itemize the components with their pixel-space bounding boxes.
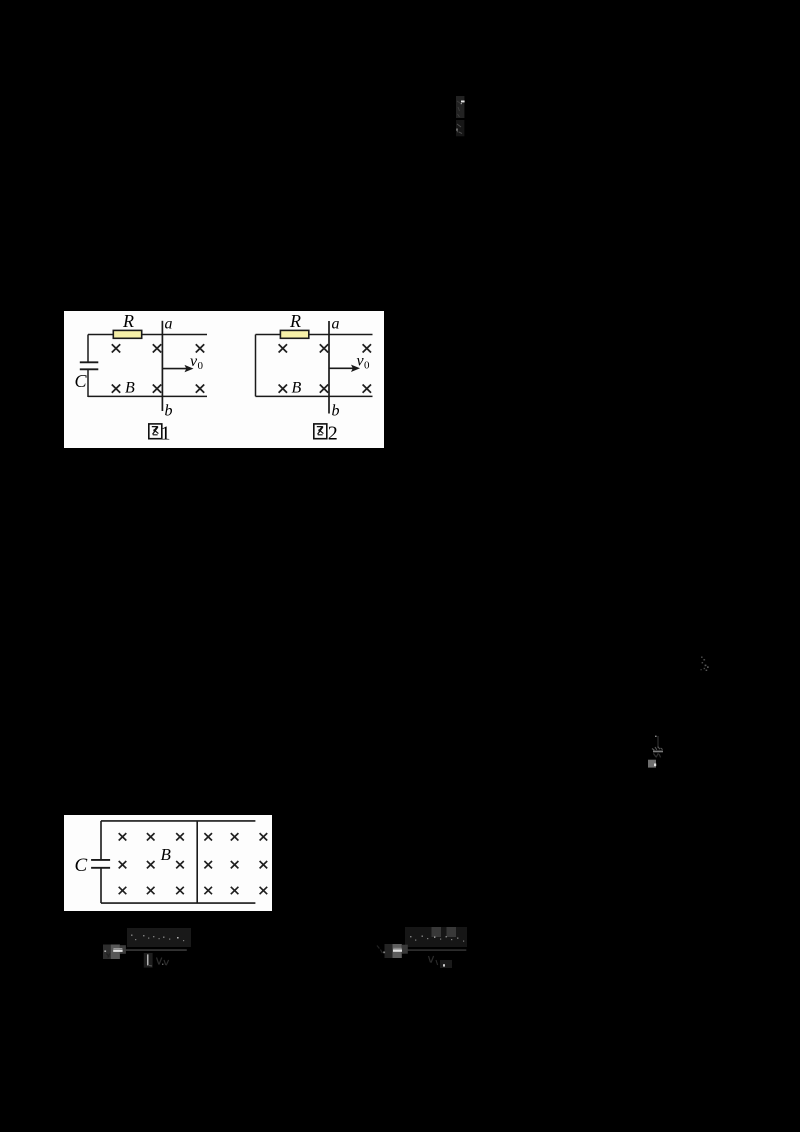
svg-text:b: b <box>332 403 340 420</box>
t mark left <box>383 952 385 954</box>
capacitor C plates <box>91 860 110 868</box>
capacitor C plates (circuit1) <box>80 362 99 369</box>
wire: loop bottom wire <box>101 902 255 904</box>
v0 label (circuit1) <box>190 353 204 372</box>
wire: loop left wire upper segment <box>100 821 102 860</box>
faint v0 remnant (right, near x700 y656) <box>694 650 714 676</box>
svg-text:1: 1 <box>161 422 171 444</box>
denominator v0 marks <box>157 958 169 966</box>
svg-text:R: R <box>289 311 301 331</box>
B-field crosses row1 (circuit2) <box>279 344 371 352</box>
faint fraction remnant (right, near x650 y736) <box>644 730 668 772</box>
equals sign <box>113 948 122 952</box>
wire: circuit1 left wire upper segment <box>87 335 89 363</box>
B-field crosses row2 <box>119 861 268 868</box>
wire: loop left wire lower segment <box>100 868 102 903</box>
B-field crosses row2 (circuit1) <box>112 385 204 393</box>
B-field crosses row2 (circuit2) <box>279 385 371 393</box>
resistor R (circuit2) <box>280 330 308 338</box>
B-field crosses row1 <box>119 833 268 840</box>
figure 2: capacitor C with field region B <box>64 815 272 911</box>
svg-text:B: B <box>161 845 172 864</box>
wire: loop top wire <box>101 820 255 822</box>
fraction bar <box>403 949 466 950</box>
gray blocks around equals <box>385 944 393 958</box>
svg-text:a: a <box>165 316 173 333</box>
wire: circuit1 top wire <box>88 334 207 336</box>
svg-text:R: R <box>122 311 134 331</box>
svg-text:2: 2 <box>328 422 338 444</box>
svg-text:C: C <box>75 371 88 391</box>
gray blocks around equals <box>103 945 111 960</box>
caption 图2 <box>314 422 338 444</box>
fraction bar <box>123 949 187 951</box>
rod ab (circuit2) <box>328 321 330 414</box>
B-field crosses row3 <box>119 887 268 894</box>
svg-text:B: B <box>125 380 135 397</box>
figure 1: two circuits 图1 and 图2 <box>64 311 384 448</box>
svg-text:B: B <box>292 380 302 397</box>
svg-text:a: a <box>332 316 340 333</box>
svg-text:C: C <box>75 855 88 876</box>
v0 arrow (circuit1) <box>162 365 193 372</box>
wire: circuit2 top wire <box>256 334 373 336</box>
rod ab (circuit1) <box>161 321 163 411</box>
denominator marks <box>429 956 434 963</box>
faint formula remnant A (left, t = fraction) <box>95 924 195 972</box>
wire: circuit2 bottom wire <box>256 395 373 397</box>
v0 arrow (circuit2) <box>329 365 360 372</box>
svg-text:b: b <box>165 403 173 420</box>
svg-text:0: 0 <box>364 360 370 372</box>
faint inline formula remnant (top, near x456 y96) <box>450 90 474 146</box>
denominator block with bright L stroke <box>144 953 153 968</box>
equals sign <box>393 948 402 952</box>
svg-text:0: 0 <box>198 360 204 372</box>
wire: circuit2 left wire <box>255 335 257 397</box>
wire: circuit1 left wire lower segment <box>87 370 89 398</box>
resistor R (circuit1) <box>113 330 141 338</box>
wire: circuit1 bottom wire <box>88 395 207 397</box>
caption 图1 <box>149 422 171 444</box>
faint formula remnant B (right, t = fraction) <box>370 924 476 972</box>
t mark left <box>104 950 106 952</box>
B-field crosses row1 (circuit1) <box>112 344 204 352</box>
wire: vertical divider <box>196 821 198 903</box>
v0 label (circuit2) <box>357 353 371 372</box>
